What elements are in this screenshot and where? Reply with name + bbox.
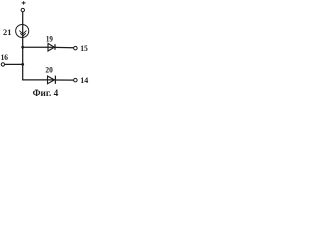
wire: diode 20 cathode to terminal 14 (55, 79, 73, 81)
svg-text:21: 21 (3, 27, 11, 37)
plus polarity label (22, 1, 26, 4)
diode D20 cathode bar (54, 76, 56, 84)
terminal 16 (open circle) (1, 63, 4, 66)
terminal 14 (open circle) (74, 78, 78, 82)
current source arrowhead (double chevron, pointing down) (19, 31, 26, 36)
wire: diode 19 cathode to terminal 15 (55, 46, 74, 48)
node junction J1 (dot at diode-19 branch) (21, 46, 24, 49)
terminal 15 (open circle) (74, 46, 78, 50)
wire: terminal 16 to junction J2 (5, 63, 23, 65)
diode D19 triangle (48, 43, 54, 51)
wire: main vertical line from top terminal down to lower corner (22, 12, 24, 80)
svg-text:16: 16 (1, 52, 9, 62)
diode D20 triangle (48, 76, 55, 84)
svg-text:19: 19 (46, 33, 53, 43)
svg-text:20: 20 (45, 64, 53, 74)
diode D19 cathode bar (54, 44, 56, 50)
current source U21 (circle) (16, 24, 29, 37)
wire: lower corner to diode 20 anode (22, 79, 54, 81)
terminal T+ (top open circle) (21, 8, 24, 11)
svg-text:Фиг. 4: Фиг. 4 (33, 88, 59, 99)
node junction J2 (dot where 16-wire meets main line) (21, 63, 24, 66)
svg-text:15: 15 (80, 43, 88, 53)
svg-text:14: 14 (80, 75, 89, 85)
wire: junction J1 to diode 19 anode (23, 46, 55, 48)
